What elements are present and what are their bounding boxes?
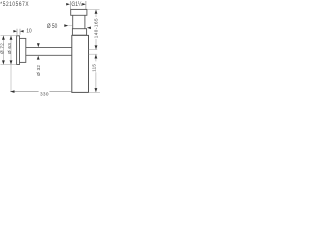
dimension diameter 32 pipe — [36, 43, 41, 76]
dimension diameter 63 — [7, 36, 12, 65]
trap body — [72, 35, 89, 92]
dimension diameter 72 — [0, 35, 17, 64]
svg-text:Ø 63: Ø 63 — [7, 43, 12, 54]
dimension 10 rosette depth — [13, 28, 31, 35]
rosette plate — [17, 36, 20, 65]
svg-text:330: 330 — [40, 92, 49, 97]
collar ring — [72, 29, 86, 36]
nut — [71, 9, 87, 15]
svg-text:Ø 50: Ø 50 — [47, 24, 57, 31]
svg-text:Ø 32: Ø 32 — [36, 65, 41, 76]
outlet pipe — [26, 48, 72, 56]
svg-text:Ø 72: Ø 72 — [0, 43, 4, 54]
svg-text:*5210567X: *5210567X — [0, 1, 29, 8]
dimension 40-165 right upper — [87, 10, 99, 50]
svg-text:115: 115 — [92, 64, 97, 72]
svg-text:140-165: 140-165 — [93, 18, 98, 38]
dimension diameter 50 — [47, 24, 91, 31]
dimension 330 bottom — [10, 65, 71, 97]
svg-text:10: 10 — [26, 28, 31, 34]
dimension 115 right lower — [89, 54, 100, 92]
svg-text:G1¼: G1¼ — [71, 2, 82, 9]
rosette block — [20, 38, 26, 62]
dimension G1 1/4 top — [66, 1, 86, 9]
neck pipe — [73, 15, 85, 28]
